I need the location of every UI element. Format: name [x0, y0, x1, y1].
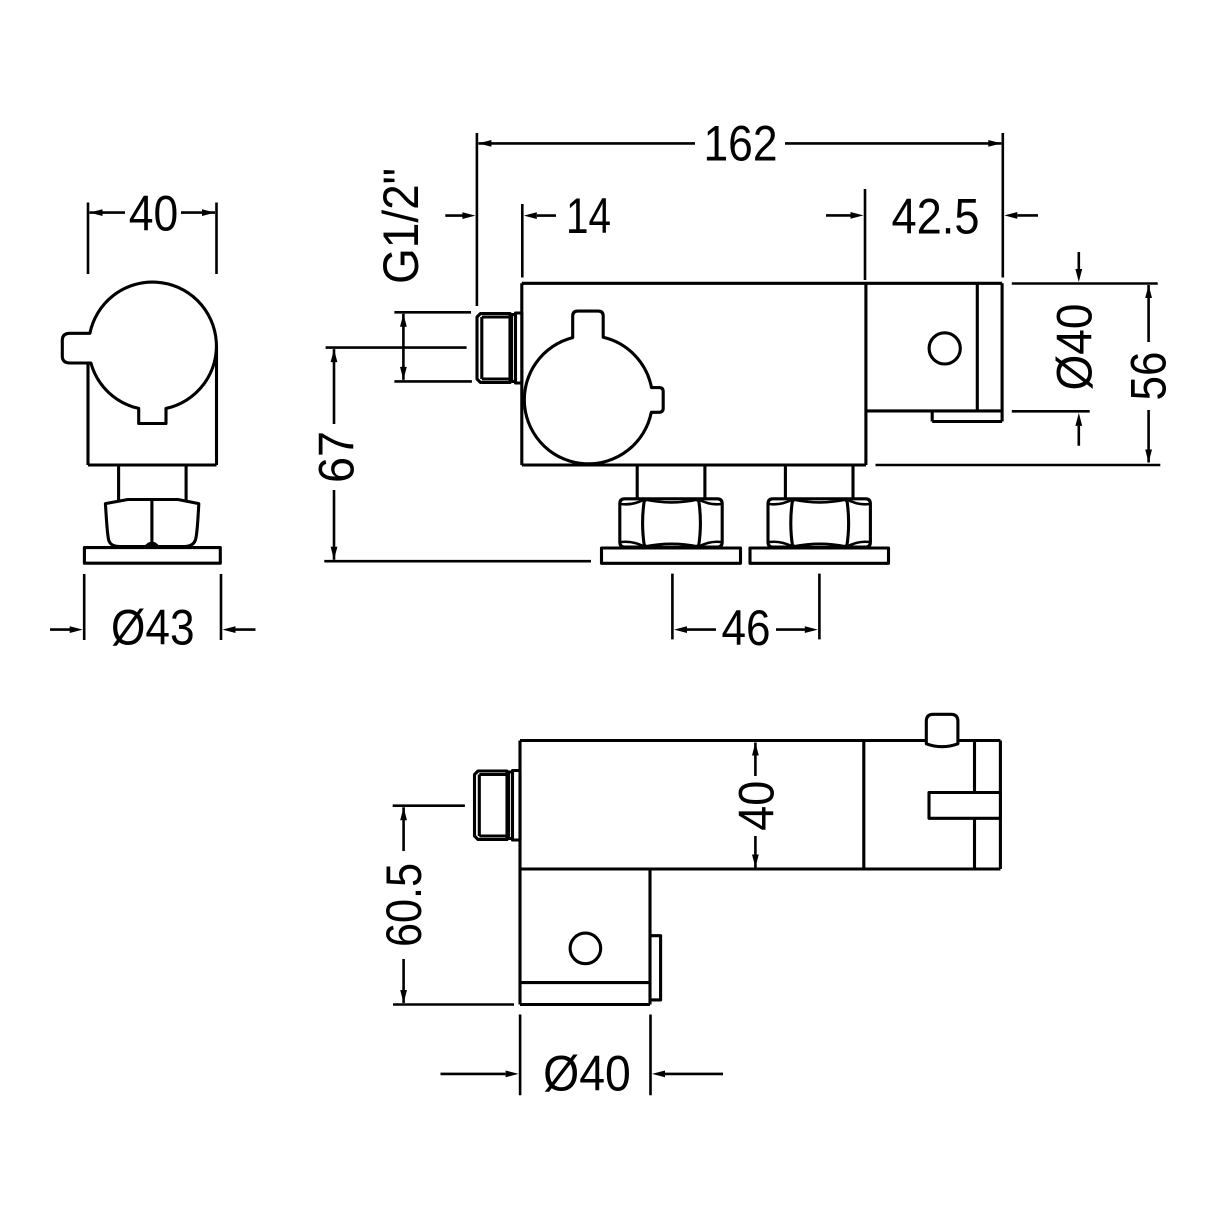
front view: dimension G1/2 extension lines — [394, 312, 472, 381]
front view: dimension 14 extension line — [521, 204, 524, 278]
front view: dimension 42.5 arrows — [826, 212, 1038, 219]
front view: dimension 14 arrows — [445, 212, 556, 219]
front view: left wall plate — [602, 548, 741, 563]
front view: dimension 67 extension lines — [324, 348, 591, 562]
front view: dimension 67 line and arrows — [331, 349, 338, 560]
front view: dimension 46 line and arrows — [674, 626, 818, 633]
side view: dimension D43 extension lines — [84, 574, 221, 640]
top view: dimension 60.5 extension lines — [393, 806, 514, 1005]
side view: knob with side nub and bottom notch — [62, 282, 216, 423]
front view: dimension D40 arrows — [1075, 252, 1082, 446]
top view: outlet leg screw hole — [570, 933, 601, 964]
front view: knob with top tab and side nub — [524, 311, 663, 464]
front view: right wall plate — [750, 548, 889, 563]
front view: dimension 46 extension lines — [672, 574, 819, 640]
front view: dimension 162 extension lines — [477, 133, 1003, 306]
svg-text:60.5: 60.5 — [376, 863, 432, 947]
top view: knob nub — [926, 714, 958, 746]
svg-text:14: 14 — [566, 188, 611, 244]
side view: backnut — [105, 500, 198, 547]
front view: outlet section outline — [866, 283, 1002, 421]
top view: wall flange slot — [929, 793, 1000, 819]
svg-text:Ø40: Ø40 — [543, 1045, 631, 1101]
top view: outlet leg outline — [520, 869, 661, 1005]
front view: valve body outline — [522, 283, 1002, 465]
svg-text:42.5: 42.5 — [892, 189, 980, 245]
front view: dimension 162 line and arrows — [478, 140, 1001, 147]
front view: dimension 56 extension line — [876, 464, 1161, 467]
side view: inlet stem — [119, 465, 187, 502]
front view: left inlet stem — [637, 465, 705, 501]
side view: dimension D43 arrows — [50, 626, 256, 633]
svg-text:40: 40 — [129, 185, 179, 241]
top view: dimension D40 arrows — [441, 1071, 724, 1078]
svg-text:G1/2": G1/2" — [373, 168, 429, 284]
svg-text:67: 67 — [309, 431, 365, 483]
front view: outlet screw hole — [929, 333, 960, 364]
svg-text:Ø43: Ø43 — [111, 599, 195, 655]
front view: dimension 56 line and arrows — [1145, 285, 1152, 463]
side view: dimension 40 line and arrows — [90, 209, 216, 216]
top view: dimension 60.5 line and arrows — [400, 807, 407, 1003]
front view: right backnut — [768, 499, 870, 547]
top view: valve body outline — [520, 741, 1000, 1005]
front view: dimension 42.5 extension line — [864, 189, 867, 280]
front view: dimension G1/2 line and arrows — [400, 314, 407, 380]
front view: dimension D40 extension lines — [1012, 284, 1158, 412]
top view: G1/2 threaded inlet — [475, 771, 521, 841]
side view: wall plate — [84, 548, 220, 564]
side view: valve body — [88, 346, 217, 465]
front view: left backnut — [620, 499, 722, 547]
svg-text:40: 40 — [728, 781, 784, 831]
top view: dimension D40 extension lines — [520, 1015, 650, 1096]
top view: dimension 40 line and arrows — [752, 743, 759, 868]
front view: right inlet stem — [785, 465, 853, 501]
svg-text:46: 46 — [722, 600, 771, 656]
svg-text:162: 162 — [704, 115, 778, 171]
side view: dimension 40 extension lines — [88, 203, 217, 275]
svg-text:56: 56 — [1121, 352, 1177, 401]
front view: G1/2 threaded inlet — [477, 313, 522, 383]
svg-text:Ø40: Ø40 — [1047, 304, 1103, 391]
